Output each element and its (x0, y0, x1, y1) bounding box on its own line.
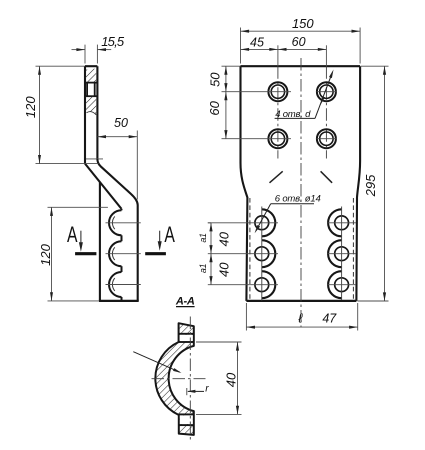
svg-text:60: 60 (292, 35, 306, 49)
svg-text:40: 40 (223, 372, 238, 387)
dimension chain a1/40 (lower hole rows) (198, 223, 232, 285)
section cut marker A (left) (67, 222, 96, 254)
side view: lower plate bottom edge (99, 300, 139, 302)
label 4 holes d with leader (275, 70, 334, 121)
side view: bend tangent line (86, 158, 103, 160)
dimension 120 (lower plate) (38, 207, 108, 301)
section A-A: centerlines (152, 317, 206, 442)
front view: horizontal centerlines of upper hole rows (222, 92, 338, 139)
side view: broken-out section hatch (lower) with break line (85, 96, 96, 115)
svg-text:120: 120 (23, 96, 38, 118)
dimension 150 (overall width) (241, 16, 361, 64)
svg-text:a1: a1 (198, 264, 208, 274)
svg-text:A: A (164, 222, 175, 247)
side view: upper strap outline (85, 66, 97, 163)
dimension 295 (overall height) (358, 66, 389, 301)
dimension 50 (offset) (97, 116, 137, 199)
svg-text:120: 120 (38, 243, 53, 265)
dimension 120 (upper strap length) (23, 66, 98, 163)
section A-A: dimension 40 (196, 342, 242, 414)
dimension l and 47 (bottom) (246, 303, 357, 331)
section A-A: hole break bands (179, 334, 194, 425)
side view: Z-bend transition (85, 159, 138, 301)
svg-text:A: A (67, 222, 78, 247)
front view: hidden fold lines (250, 198, 354, 300)
svg-text:40: 40 (217, 262, 232, 277)
side view: hole d section walls (85, 83, 97, 97)
front view: 4 holes d (upper group) (268, 82, 336, 148)
svg-text:60: 60 (207, 100, 222, 115)
side view: lower plate left edge (99, 182, 101, 301)
svg-text:50: 50 (208, 72, 223, 87)
front view: main vertical centerline (300, 58, 302, 327)
dimension 15,5 (strap thickness) (72, 34, 125, 64)
section A-A: r dimension (187, 383, 209, 396)
dimensions 50 and 60 (vertical, upper holes) (207, 66, 241, 139)
svg-text:150: 150 (292, 16, 314, 31)
label 6 holes dia14 with leader (255, 193, 321, 233)
svg-text:a1: a1 (198, 233, 208, 243)
svg-text:50: 50 (114, 116, 128, 130)
svg-text:295: 295 (363, 174, 378, 197)
side view: corrugation bump arcs with centerlines (106, 209, 141, 301)
front view: 6 holes with embossment arcs (lower group) (208, 207, 356, 301)
svg-text:6 отв. ø14: 6 отв. ø14 (275, 193, 321, 204)
svg-text:A-A: A-A (175, 295, 195, 307)
svg-text:47: 47 (322, 311, 337, 325)
section cut marker A (right) (145, 222, 175, 254)
svg-text:40: 40 (217, 231, 232, 246)
svg-text:15,5: 15,5 (101, 34, 125, 49)
front view: vertical centerlines of upper hole columns (278, 45, 327, 158)
section label A-A (175, 295, 195, 307)
side view: broken-out section hatch (upper) (85, 69, 96, 83)
front view: bend indication marks (270, 171, 333, 183)
svg-text:r: r (205, 383, 209, 395)
front view: plate outline (241, 66, 361, 301)
section A-A: corrugated strip outline with hatching (155, 323, 193, 435)
svg-text:45: 45 (250, 35, 264, 49)
dimensions 45 and 60 (upper hole spacing) (241, 35, 327, 51)
section A-A: radius leader (133, 352, 181, 373)
